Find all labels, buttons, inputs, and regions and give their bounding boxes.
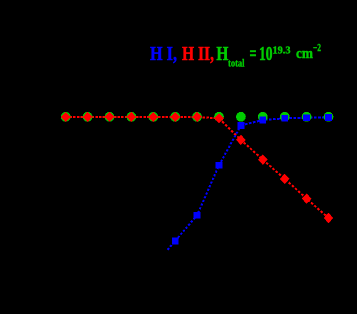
H_total data point 12 (green circle) <box>302 112 312 122</box>
H_total data point 2 (green circle) <box>83 112 93 122</box>
H II data point 4 (blue square) <box>238 122 245 129</box>
H_total data point 7 (green circle) <box>192 112 202 122</box>
H I data point 11 (red diamond) <box>280 174 290 184</box>
H I data point 7 (red diamond) <box>192 112 202 122</box>
H II data point 7 (blue square) <box>303 114 310 121</box>
svg-text:H II,: H II, <box>182 43 214 65</box>
H_total data point 9 (green circle) <box>236 112 246 122</box>
H_total data point 4 (green circle) <box>126 112 136 122</box>
H II data point 6 (blue square) <box>281 115 288 122</box>
H I data point 4 (red diamond) <box>127 112 137 122</box>
svg-text:19.3: 19.3 <box>273 46 291 57</box>
H II data point 3 (blue square) <box>216 162 223 169</box>
H I series dotted line, descending part (red) <box>219 118 329 218</box>
H I data point 1 (red diamond) <box>61 112 71 122</box>
svg-text:10: 10 <box>259 43 273 65</box>
H_total data point 3 (green circle) <box>105 112 115 122</box>
H_total data point 8 (green circle) <box>214 112 224 122</box>
H II series dotted line, rising part (blue) <box>168 125 241 249</box>
H I data point 8 (red diamond) <box>214 113 224 123</box>
H_total data point 6 (green circle) <box>170 112 180 122</box>
svg-text:H: H <box>216 43 228 65</box>
H_total data point 11 (green circle) <box>280 112 290 122</box>
svg-text:=: = <box>250 43 257 65</box>
svg-text:total: total <box>228 58 245 70</box>
H II data point 5 (blue square) <box>259 117 266 124</box>
H_total data point 5 (green circle) <box>148 112 158 122</box>
svg-text:cm: cm <box>296 46 313 62</box>
H_total data point 13 (green circle) <box>324 112 334 122</box>
H I data point 13 (red diamond) <box>324 213 334 223</box>
H I data point 9 (red diamond) <box>236 135 246 145</box>
H I data point 10 (red diamond) <box>258 155 268 165</box>
H_total data point 1 (green circle) <box>61 112 71 122</box>
H II data point 2 (blue square) <box>194 212 201 219</box>
svg-text:H I,: H I, <box>150 43 177 65</box>
H I data point 2 (red diamond) <box>83 112 93 122</box>
H II series dotted line, flat part (blue) <box>241 118 329 126</box>
H I data point 6 (red diamond) <box>170 112 180 122</box>
H I data point 5 (red diamond) <box>148 112 158 122</box>
H I series dotted line, flat part (red) <box>66 117 219 119</box>
svg-text:−2: −2 <box>313 43 321 54</box>
H I data point 3 (red diamond) <box>105 112 115 122</box>
H_total data point 10 (green circle) <box>258 112 268 122</box>
H I data point 12 (red diamond) <box>302 194 312 204</box>
H II data point 1 (blue square) <box>172 238 179 245</box>
H II data point 8 (blue square) <box>325 114 332 121</box>
